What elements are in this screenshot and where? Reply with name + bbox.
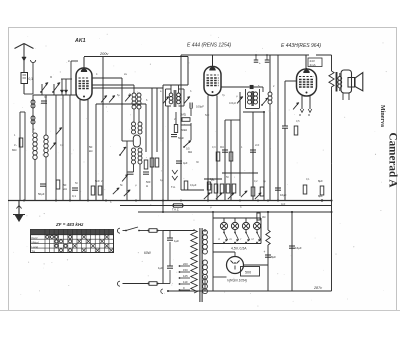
svg-text:200v: 200v xyxy=(99,52,109,56)
svg-text:16µF: 16µF xyxy=(280,193,287,197)
svg-text:Minerva: Minerva xyxy=(379,105,385,127)
svg-text:100pF: 100pF xyxy=(196,105,204,109)
svg-text:T.A.: T.A. xyxy=(171,185,176,189)
svg-text:5nF: 5nF xyxy=(205,114,210,117)
svg-text:0,3: 0,3 xyxy=(212,146,216,149)
svg-text:MΩ: MΩ xyxy=(12,148,16,152)
svg-text:0,2: 0,2 xyxy=(60,144,64,147)
svg-text:4mA: 4mA xyxy=(310,63,316,67)
svg-text:E 444 (RENS 1254): E 444 (RENS 1254) xyxy=(187,43,232,49)
svg-text:+: + xyxy=(259,61,261,65)
svg-text:4nF: 4nF xyxy=(281,203,286,206)
svg-text:Mittel: Mittel xyxy=(32,240,40,244)
svg-text:2nF: 2nF xyxy=(255,144,260,147)
svg-text:kΩ: kΩ xyxy=(89,149,93,153)
svg-text:T.A.Z.: T.A.Z. xyxy=(172,208,180,212)
svg-text:Lang: Lang xyxy=(32,245,39,249)
svg-text:8µF: 8µF xyxy=(318,194,323,198)
svg-text:3Ω: 3Ω xyxy=(262,215,265,219)
svg-text:Ω: Ω xyxy=(146,184,148,188)
svg-text:100µF: 100µF xyxy=(229,102,237,105)
svg-text:M: M xyxy=(50,76,52,79)
svg-text:+: + xyxy=(264,250,266,254)
svg-text:0,1: 0,1 xyxy=(306,178,310,181)
svg-text:4µF: 4µF xyxy=(183,161,188,165)
svg-text:1µF: 1µF xyxy=(158,266,163,270)
svg-text:0,2: 0,2 xyxy=(254,180,258,183)
svg-text:60W: 60W xyxy=(144,251,152,255)
svg-text:500: 500 xyxy=(245,271,251,275)
svg-text:500: 500 xyxy=(146,180,151,184)
svg-text:AK1: AK1 xyxy=(74,38,86,44)
svg-text:MΩ: MΩ xyxy=(220,146,224,149)
svg-text:220: 220 xyxy=(183,262,188,266)
svg-text:E 443H(RES 964): E 443H(RES 964) xyxy=(281,43,321,49)
svg-text:4,5V, 0,5A: 4,5V, 0,5A xyxy=(231,247,247,251)
svg-text:0,5: 0,5 xyxy=(296,120,300,123)
svg-text:0,1: 0,1 xyxy=(72,194,76,198)
svg-text:8µF: 8µF xyxy=(318,179,323,183)
svg-text:Camerad A: Camerad A xyxy=(387,133,399,188)
svg-text:Kurz: Kurz xyxy=(32,236,39,240)
svg-text:8µF: 8µF xyxy=(271,255,276,259)
svg-text:ZF = 483 kHz: ZF = 483 kHz xyxy=(55,222,84,227)
svg-text:110: 110 xyxy=(183,280,188,284)
svg-text:0,1: 0,1 xyxy=(29,77,34,81)
svg-text:50kΩ: 50kΩ xyxy=(181,128,187,132)
svg-text:50µF: 50µF xyxy=(38,192,45,196)
svg-text:TA: TA xyxy=(32,249,36,253)
svg-text:125: 125 xyxy=(183,274,188,278)
svg-text:1µF: 1µF xyxy=(174,239,179,243)
svg-text:150: 150 xyxy=(183,268,188,272)
svg-text:0,1: 0,1 xyxy=(210,178,214,181)
svg-text:0,5: 0,5 xyxy=(186,147,190,151)
svg-text:0,1µF: 0,1µF xyxy=(190,184,197,187)
svg-text:V(RGN 1054): V(RGN 1054) xyxy=(227,279,247,283)
svg-text:MΩ: MΩ xyxy=(188,150,192,154)
svg-text:287v: 287v xyxy=(313,286,323,290)
svg-text:16µF: 16µF xyxy=(295,246,302,250)
svg-text:5nF: 5nF xyxy=(95,179,100,183)
